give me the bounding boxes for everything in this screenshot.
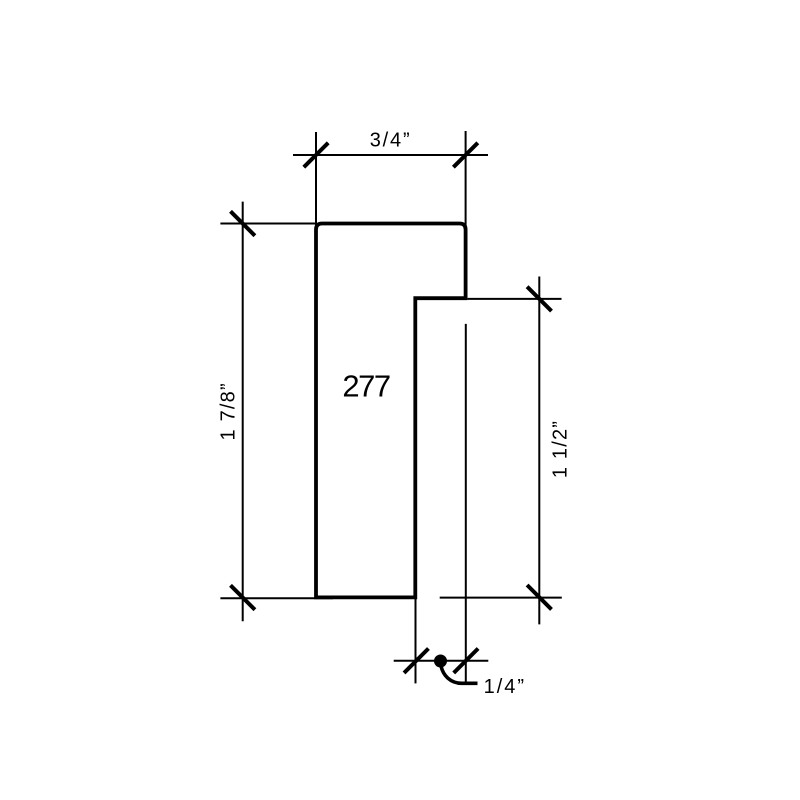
svg-text:1 7/8”: 1 7/8”: [218, 382, 240, 440]
svg-text:3/4”: 3/4”: [370, 130, 412, 152]
svg-text:277: 277: [342, 368, 389, 403]
svg-text:1 1/2”: 1 1/2”: [550, 420, 572, 478]
svg-text:1/4”: 1/4”: [484, 676, 526, 698]
